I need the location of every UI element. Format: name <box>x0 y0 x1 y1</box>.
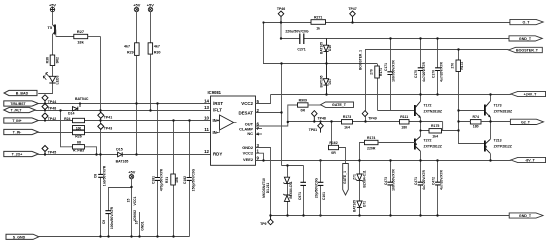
svg-text:R271: R271 <box>314 16 322 20</box>
wire row RDY (T_2O+ to IC pin 12) <box>38 154 210 156</box>
wire C471 column <box>420 161 422 216</box>
wire C472 column <box>437 161 439 216</box>
svg-text:+5V: +5V <box>147 2 154 7</box>
svg-text:C182: C182 <box>183 176 187 184</box>
svg-text:-8V_T: -8V_T <box>525 158 536 162</box>
wire R_FB3 branch from /FLT row <box>61 111 73 147</box>
svg-text:GND_T: GND_T <box>519 214 532 218</box>
transistor T213 <box>485 140 490 154</box>
svg-text:G2_T: G2_T <box>521 120 531 124</box>
wire IC pin2 DESAT stub <box>256 112 282 114</box>
svg-text:GATE_T: GATE_T <box>332 103 347 107</box>
svg-text:ZXTP2812Z: ZXTP2812Z <box>424 144 442 148</box>
svg-text:R111: R111 <box>400 115 408 119</box>
wire C9 column <box>108 187 110 237</box>
wire IC pin1 VCC2b route <box>256 153 264 160</box>
svg-text:T_2O+: T_2O+ <box>12 153 22 157</box>
wire booster input row (OUT node) <box>288 121 443 123</box>
wire R174 right to T272 base <box>378 142 415 144</box>
wire S_GND row <box>39 236 190 238</box>
wire T173 emitter column <box>490 117 492 140</box>
wire DESAT column <box>281 64 283 166</box>
svg-text:TP45: TP45 <box>48 150 56 154</box>
svg-text:4u7/20V/X7R: 4u7/20V/X7R <box>422 61 426 81</box>
power +5V supply symbol (R29) <box>134 7 138 11</box>
wire BOOSTER_T row <box>365 49 509 51</box>
svg-text:180: 180 <box>473 124 479 128</box>
test point TP45 <box>42 146 48 155</box>
svg-text:R909: R909 <box>299 98 307 102</box>
wire R74 leads <box>459 121 491 123</box>
svg-text:150p/50V/C0G: 150p/50V/C0G <box>191 168 195 191</box>
net flag GND_T (bottom) <box>509 213 543 218</box>
svg-text:O_T: O_T <box>523 20 531 24</box>
wire R909 to GATE_T flag <box>308 104 321 106</box>
transistor T173 <box>485 102 490 117</box>
svg-text:9R2: 9R2 <box>55 57 59 63</box>
wire IC pin7 CLAMP stub <box>256 128 263 130</box>
svg-text:BZX84-C11: BZX84-C11 <box>362 170 366 187</box>
svg-text:/FLT: /FLT <box>213 108 222 113</box>
test point TP43 <box>98 123 104 129</box>
svg-text:4u7/20V/X7R: 4u7/20V/X7R <box>422 169 426 189</box>
svg-text:TP41: TP41 <box>104 115 112 119</box>
svg-text:T5: T5 <box>47 25 52 30</box>
svg-text:4k7: 4k7 <box>124 45 130 49</box>
svg-text:IC9082: IC9082 <box>133 210 137 221</box>
svg-text:T/BL/BST: T/BL/BST <box>10 102 26 106</box>
wire GND row (bottom) <box>271 215 511 217</box>
capacitor C473 <box>387 182 392 185</box>
svg-text:20p/50V/C0G: 20p/50V/C0G <box>315 177 319 198</box>
svg-text:14: 14 <box>204 98 209 103</box>
svg-text:GND_T: GND_T <box>519 37 532 41</box>
svg-text:1k4: 1k4 <box>344 126 350 130</box>
svg-text:9: 9 <box>257 156 260 161</box>
svg-text:R162: R162 <box>329 141 337 145</box>
op-amp / gate driver IC9081 box <box>211 96 256 165</box>
svg-text:0R: 0R <box>301 109 306 113</box>
right section labels <box>367 20 539 218</box>
svg-text:TP48: TP48 <box>318 117 326 121</box>
svg-text:+5V: +5V <box>128 170 135 175</box>
wire C101 column <box>320 161 322 216</box>
junction dots (middle and right) <box>262 21 491 216</box>
capacitor C181 <box>155 178 160 181</box>
text labels left section <box>10 2 195 239</box>
svg-text:R29: R29 <box>127 51 134 55</box>
wire VEE2 row (-8V rail) <box>256 160 511 162</box>
svg-text:/RST: /RST <box>213 101 223 106</box>
svg-text:C472: C472 <box>431 177 435 185</box>
svg-text:C171: C171 <box>384 63 388 71</box>
net flag GATE_1 (vertical) <box>343 164 349 196</box>
wire row 63.5 (DESAT sense) <box>263 63 377 65</box>
wire IC pin3 GND2 route down <box>256 148 271 216</box>
svg-text:R26: R26 <box>75 134 81 138</box>
svg-text:R74: R74 <box>472 115 478 119</box>
capacitor C175 <box>418 68 423 71</box>
capacitor C101 <box>318 182 324 185</box>
svg-text:C271: C271 <box>297 47 305 51</box>
net flag O_T <box>510 19 543 24</box>
wire T272 emitter column to -8V row <box>420 151 422 161</box>
svg-text:10: 10 <box>204 115 209 120</box>
wire T213 emitter to -8V row <box>490 153 492 160</box>
svg-text:+5V: +5V <box>49 2 56 7</box>
svg-text:270: 270 <box>370 69 374 75</box>
test point TP48 <box>42 104 48 111</box>
wire row /RST (T/BL/RST to IC pin 14) <box>38 103 210 105</box>
svg-text:D17: D17 <box>328 78 332 84</box>
svg-text:T272: T272 <box>424 139 432 143</box>
svg-text:ZXTN2818Z: ZXTN2818Z <box>494 109 512 113</box>
svg-text:C176: C176 <box>431 70 435 78</box>
wire LED3 to B_BAD flag <box>38 83 52 93</box>
resistor R111 <box>400 120 410 124</box>
wire R175 row <box>421 122 459 131</box>
wire BOOSTER_1 column to TP49 <box>365 50 367 122</box>
svg-text:180: 180 <box>401 126 407 130</box>
resistor R271 <box>311 20 326 25</box>
svg-text:T213: T213 <box>494 139 502 143</box>
svg-text:18k: 18k <box>77 40 84 45</box>
test point TP44 <box>42 95 48 104</box>
svg-text:ZXTP2812Z: ZXTP2812Z <box>494 144 512 148</box>
transistor T272 <box>415 137 420 152</box>
net flag T_IN- <box>4 129 39 134</box>
svg-text:12: 12 <box>204 149 209 154</box>
svg-text:VCC1: VCC1 <box>133 196 137 205</box>
svg-text:BAT165: BAT165 <box>116 160 129 164</box>
svg-text:IN+: IN+ <box>213 118 220 123</box>
resistor R26 <box>73 130 85 134</box>
LED LED3 <box>43 73 55 83</box>
svg-text:C8: C8 <box>94 174 98 178</box>
wire R36 to LED3 <box>52 66 54 77</box>
resistor R74 <box>470 120 481 124</box>
wire T5 emitter to R36 <box>52 35 54 56</box>
net flag B_BAD <box>4 90 37 95</box>
capacitor C8 on column <box>98 174 103 177</box>
diode D17 BAT165 <box>323 64 328 95</box>
test point TP47 <box>350 11 356 22</box>
transistor T172 <box>415 102 420 118</box>
power +5V supply symbol (T5 collector) <box>50 7 54 11</box>
svg-text:16: 16 <box>134 221 138 225</box>
wire C176 column <box>437 39 439 95</box>
power +5V supply symbol (VCC1) <box>129 174 133 178</box>
svg-text:IN-: IN- <box>213 130 219 135</box>
net flag BOOSTER_T <box>509 47 543 52</box>
wire C473 column <box>390 161 392 216</box>
svg-text:T_/FLT: T_/FLT <box>11 109 23 113</box>
svg-text:Z71: Z71 <box>353 174 357 180</box>
svg-text:15: 15 <box>127 199 131 203</box>
svg-text:4u7/20V/X7R: 4u7/20V/X7R <box>439 61 443 81</box>
svg-text:RDY: RDY <box>213 152 222 157</box>
wire row IN+ (T_IN+ to IC pin 10) <box>38 120 210 122</box>
svg-text:R30: R30 <box>154 51 161 55</box>
capacitor C971 <box>300 182 306 185</box>
resistor R909 <box>298 103 309 107</box>
svg-text:100: 100 <box>76 126 82 130</box>
svg-text:R174: R174 <box>367 136 375 140</box>
junction dots (left section) <box>44 102 191 237</box>
svg-text:IC9081: IC9081 <box>208 90 222 95</box>
svg-text:BOOSTER_T: BOOSTER_T <box>516 48 539 52</box>
svg-text:R24: R24 <box>64 117 70 121</box>
capacitor C472 <box>435 182 440 185</box>
wire IC pin4 NC stub <box>256 133 263 135</box>
svg-text:100n/50V/X7R: 100n/50V/X7R <box>110 206 114 229</box>
capacitor C182 <box>187 178 192 181</box>
svg-text:TP48: TP48 <box>48 107 56 111</box>
resistor R_FB3 <box>73 145 85 149</box>
resistor R27 <box>74 34 88 38</box>
svg-text:1k: 1k <box>316 27 320 31</box>
svg-text:C101: C101 <box>322 192 326 200</box>
test point TP46 <box>278 11 284 22</box>
resistor R172 (vertical 270) <box>456 60 461 72</box>
svg-text:DESAT: DESAT <box>238 110 253 115</box>
diode D15 BAT165 (on RDY row) <box>118 152 123 157</box>
wire zener column <box>287 166 289 216</box>
resistor R24 <box>73 118 85 122</box>
svg-text:TP81: TP81 <box>309 128 317 132</box>
zener Z71 BZX84-C11 <box>356 174 363 181</box>
resistor R25 <box>73 126 85 130</box>
svg-text:GND1: GND1 <box>141 221 145 231</box>
svg-text:R27: R27 <box>77 29 84 34</box>
resistor R175 <box>429 129 442 133</box>
svg-text:B_BAD: B_BAD <box>16 92 29 96</box>
svg-text:TP44: TP44 <box>48 100 56 104</box>
net flag G2_T <box>510 119 543 124</box>
svg-text:0R: 0R <box>331 151 336 155</box>
wire GND_T row (with C271 in series) <box>281 38 509 40</box>
svg-text:GND2: GND2 <box>242 145 254 150</box>
svg-text:R172: R172 <box>460 62 464 70</box>
wire +5V to R29 <box>136 12 138 43</box>
capacitor C471 <box>418 182 423 185</box>
wire R30 to /FLT row <box>150 54 152 110</box>
wire +5V to R30 <box>150 12 152 43</box>
net flag GND_T (top) <box>509 36 542 41</box>
net flag -8V_T <box>511 157 546 162</box>
wire column node (R27 down to S_GND) <box>88 36 101 38</box>
wire IC pin5 VCC2 to +24V row <box>256 95 271 104</box>
svg-text:BAT165: BAT165 <box>319 42 323 54</box>
net flag T_/FLT <box>4 107 36 112</box>
test point TP49 <box>362 111 368 117</box>
test point TP42 <box>42 113 48 121</box>
svg-text:R_FB3: R_FB3 <box>73 149 84 153</box>
svg-text:+5V: +5V <box>133 2 140 7</box>
test point TP41 <box>98 112 104 118</box>
resistor R162 <box>329 145 339 149</box>
svg-text:D14: D14 <box>68 112 74 116</box>
diode D71 BAT165 <box>357 201 362 207</box>
resistor R174 <box>365 140 379 144</box>
svg-text:TP47: TP47 <box>348 7 356 11</box>
svg-text:T172: T172 <box>424 104 432 108</box>
svg-text:BZX84-C11: BZX84-C11 <box>289 181 293 198</box>
wire VCC1 pin 15 column <box>131 179 133 237</box>
wire R171 column / T172 base feed <box>378 64 415 111</box>
svg-text:4u7/20V/X7R: 4u7/20V/X7R <box>439 169 443 189</box>
svg-text:LED3: LED3 <box>56 75 60 84</box>
transistor T5 <box>53 25 56 35</box>
resistor R171 (vertical 270) <box>375 66 380 78</box>
wire TP46 column to GND_T row <box>280 22 282 39</box>
wire O_T row <box>264 22 511 24</box>
svg-text:+24V_T: +24V_T <box>524 92 537 96</box>
svg-text:R171: R171 <box>379 68 383 76</box>
wire zener Z71 column <box>359 161 361 216</box>
svg-text:D1.211: D1.211 <box>266 183 270 194</box>
capacitor C171 <box>387 72 392 75</box>
svg-text:GATE_1: GATE_1 <box>343 171 347 184</box>
diode D14 BAT54C <box>73 104 81 111</box>
svg-text:100n/50V/X7R: 100n/50V/X7R <box>391 169 395 191</box>
svg-text:220u/50V/C0G: 220u/50V/C0G <box>285 30 309 34</box>
power +5V supply symbol (R30) <box>148 7 152 11</box>
svg-text:470p/50V/X7R: 470p/50V/X7R <box>160 168 164 191</box>
svg-text:TP49: TP49 <box>368 117 376 121</box>
svg-text:4k7: 4k7 <box>154 45 160 49</box>
svg-text:T173: T173 <box>494 104 502 108</box>
svg-text:C971: C971 <box>298 192 302 200</box>
svg-text:C175: C175 <box>414 70 418 78</box>
svg-text:13: 13 <box>204 105 209 110</box>
wire G2_T flag row <box>491 121 511 123</box>
resistor R29 <box>135 43 140 56</box>
svg-text:T_IN-: T_IN- <box>13 131 21 135</box>
svg-text:VCC2: VCC2 <box>241 101 253 106</box>
net flag GATE_T <box>321 102 354 107</box>
net flag T/BL/RST <box>4 101 39 106</box>
capacitor C271 <box>300 34 304 45</box>
wire C171 column <box>390 39 392 111</box>
wire column C182 from IN+ row <box>189 121 191 237</box>
svg-text:R31: R31 <box>165 177 169 183</box>
test point TP81 (below row, pointing down) <box>318 122 324 133</box>
middle section labels <box>260 7 408 226</box>
svg-text:1n0/50V/X7R: 1n0/50V/X7R <box>103 165 107 186</box>
zener D22 <box>283 194 290 201</box>
wire row /FLT (T_/FLT to IC pin 13) <box>35 110 210 112</box>
wire DESAT jog to C971 <box>282 165 304 167</box>
capacitor C176 <box>435 68 440 71</box>
svg-text:100n/50V/X7R: 100n/50V/X7R <box>391 60 395 82</box>
wire R162 branch column <box>331 122 333 148</box>
net flag T_IN+ <box>4 118 39 123</box>
svg-text:R175: R175 <box>431 124 439 128</box>
svg-text:11: 11 <box>204 127 209 132</box>
test point TP48b <box>312 111 318 122</box>
svg-text:D16: D16 <box>328 45 332 51</box>
wire IC pin6 OUT route <box>256 105 298 126</box>
svg-text:R173: R173 <box>343 115 351 119</box>
wire T173 base lead <box>459 110 485 112</box>
svg-text:VCC2: VCC2 <box>243 151 254 156</box>
wire T172 emitter column down <box>420 117 422 136</box>
net flag +24V_T <box>511 91 546 96</box>
resistor R30 <box>148 43 153 54</box>
wire column O_T row to row 63.5 <box>263 23 265 64</box>
wire column C181 from /RST row <box>157 104 159 237</box>
capacitor C9 <box>105 211 110 214</box>
svg-text:VEE2: VEE2 <box>243 157 254 162</box>
svg-text:C9: C9 <box>102 220 106 224</box>
svg-text:TP9: TP9 <box>260 222 266 226</box>
svg-text:10k: 10k <box>175 177 179 183</box>
wire T173 collector to +24V row <box>490 95 492 102</box>
svg-text:C471: C471 <box>414 177 418 185</box>
resistor R10k (vertical) <box>171 174 176 185</box>
wire R174 left to zener column <box>360 143 365 161</box>
wire T5 base to R27 <box>56 36 74 38</box>
resistor R173 <box>342 120 353 124</box>
wire R29 to /RST row <box>136 55 138 154</box>
svg-text:D15: D15 <box>116 148 122 152</box>
svg-text:BAT165: BAT165 <box>353 200 357 212</box>
wire C175 column (GND_T to +24V row) <box>420 39 422 95</box>
svg-text:TP46: TP46 <box>277 7 285 11</box>
svg-text:NC: NC <box>247 131 253 136</box>
diode D16 BAT165 <box>323 39 328 64</box>
net flag S_GND <box>6 234 39 239</box>
wire C9 branch stub <box>109 187 132 189</box>
svg-text:S_GND: S_GND <box>13 235 26 239</box>
svg-text:C473: C473 <box>384 177 388 185</box>
net flag T_2O+ <box>4 151 39 156</box>
wire +5V to T5 collector <box>52 12 54 25</box>
svg-text:220R: 220R <box>367 147 376 151</box>
svg-text:T_IN+: T_IN+ <box>12 119 21 123</box>
svg-text:ZXTN2818Z: ZXTN2818Z <box>424 109 442 113</box>
transistor T172 collector wire <box>420 95 422 102</box>
svg-text:C181: C181 <box>151 176 155 184</box>
svg-text:270: 270 <box>451 63 455 69</box>
wire C971 column <box>303 166 305 216</box>
wire GND1 pin 16 stub <box>139 212 141 237</box>
svg-text:TP43: TP43 <box>104 127 112 131</box>
test point TP9 <box>268 216 274 225</box>
resistor R36 (vertical, emitter) <box>50 55 55 66</box>
IC pin texts <box>204 90 259 162</box>
svg-text:BAT165: BAT165 <box>319 75 323 87</box>
zener D21 <box>283 177 290 184</box>
svg-text:68: 68 <box>77 140 81 144</box>
wire booster mid column (R172 / T213 base) <box>459 50 485 144</box>
wire row IN- (T_IN- to IC pin 11) <box>38 132 210 134</box>
svg-text:R36: R36 <box>46 57 50 63</box>
wire R_FB3 to RDY row <box>85 147 97 155</box>
svg-text:D71: D71 <box>362 201 366 207</box>
svg-text:BAT54C: BAT54C <box>75 97 89 101</box>
svg-text:BOOSTER_1: BOOSTER_1 <box>359 50 363 70</box>
IC9081 internal buffer triangle <box>220 115 234 130</box>
svg-text:1k4: 1k4 <box>432 135 438 139</box>
svg-text:TP42: TP42 <box>48 117 56 121</box>
wire R162 to GATE_1 tag <box>339 148 346 164</box>
wire column R10k from IN+ row <box>173 121 175 237</box>
rotated text MKDSN block <box>262 42 363 200</box>
wire +24V row <box>271 94 511 96</box>
